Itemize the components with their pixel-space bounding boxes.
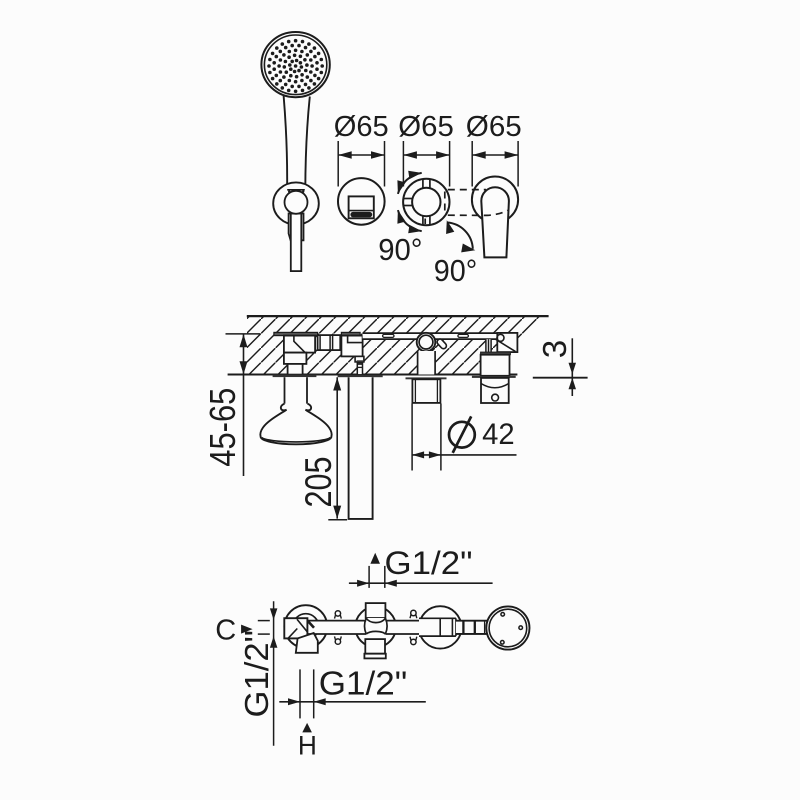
top G1/2 pointer arrow: [370, 553, 380, 564]
dimension line Ø65 #3: [471, 141, 473, 187]
pipe slot left: [383, 334, 394, 337]
dimension 45-65 extension line: [226, 333, 261, 335]
C extension ticks: [258, 621, 270, 635]
plan hose pipe ticks: [463, 621, 485, 634]
Ø42 diameter symbol: [449, 416, 475, 453]
mounting ear A bottom: [335, 639, 340, 644]
hose nipple cap: [357, 360, 364, 363]
dimension line Ø65 #1: [337, 141, 339, 187]
bell spout: [260, 404, 331, 445]
plan ball joint: [365, 618, 388, 634]
mounting ear B bottom: [411, 639, 416, 644]
plan middle bottom collar: [364, 654, 385, 659]
hose fitting interior: [348, 336, 363, 343]
right body arc: [481, 384, 509, 388]
bottom G1/2 dimension line: [279, 701, 426, 703]
hidden edge dashes upper: [448, 189, 486, 191]
hand shower head inner rim: [264, 35, 326, 95]
ring tab top: [423, 179, 430, 188]
plan right-middle rosette: [419, 606, 461, 648]
top G1/2 extension lines: [369, 566, 385, 588]
spout divider line: [349, 210, 374, 212]
right body hole: [492, 394, 499, 401]
hidden edge dashes lower: [448, 210, 508, 215]
svg-text:90°: 90°: [378, 232, 422, 267]
pipe slot right: [458, 334, 469, 337]
elbow flange: [273, 375, 317, 378]
elbow interior lines: [294, 336, 305, 353]
elbow body: [284, 336, 315, 353]
right body below wall: [481, 378, 509, 403]
valve in-wall body: [418, 351, 436, 375]
wall top line: [247, 315, 549, 317]
finished wall line: [533, 377, 588, 379]
right elbow screw: [497, 334, 504, 341]
svg-text:G1/2": G1/2": [385, 545, 473, 581]
horizontal supply pipe: [363, 333, 498, 339]
dimension Ø42 extension lines: [412, 404, 441, 471]
rotation arc lower: [398, 210, 422, 231]
shower handle: [284, 96, 310, 191]
plan hand shower holder outer: [486, 606, 529, 649]
lever rotation arc: [447, 223, 473, 249]
wall face line: [228, 374, 518, 376]
dimension 3 line: [571, 338, 573, 396]
hose fitting neck: [355, 356, 364, 362]
lever handle: [481, 187, 509, 257]
svg-text:H: H: [298, 730, 317, 760]
svg-text:3: 3: [536, 340, 573, 359]
right flange: [472, 376, 516, 378]
plan elbow down port: [296, 633, 318, 653]
spout aerator slot: [350, 212, 372, 217]
elbow top plate: [274, 332, 318, 335]
dimension 205 extension: [328, 519, 347, 521]
angled stub: [440, 342, 444, 346]
svg-text:C: C: [215, 615, 236, 647]
plan left boss: [293, 614, 319, 640]
dimension line Ø65 #2: [402, 141, 404, 187]
plan hose pipe: [456, 621, 487, 634]
svg-text:205: 205: [298, 457, 339, 508]
valve circle inner: [419, 335, 433, 349]
svg-text:90°: 90°: [434, 253, 478, 288]
mounting ear A top: [335, 611, 340, 616]
shower outlet flange: [338, 375, 383, 377]
svg-text:Ø65: Ø65: [466, 111, 522, 143]
top G1/2 dimension line: [349, 582, 493, 584]
ring tab left: [404, 199, 413, 206]
ring tab bottom: [423, 216, 430, 225]
hose connector collar: [289, 214, 304, 241]
right diagonal line: [496, 339, 516, 351]
bottom G1/2 extension lines: [300, 669, 314, 718]
H pointer arrow: [302, 723, 312, 733]
plan sleeve joints: [440, 618, 456, 636]
svg-text:Ø65: Ø65: [334, 111, 389, 143]
plan pipe shadow edge: [308, 621, 314, 628]
valve flange: [406, 377, 447, 379]
spray nozzle dots: [267, 39, 324, 93]
right neck lines: [486, 339, 491, 352]
svg-text:G1/2": G1/2": [319, 665, 408, 702]
bracket clamp line: [287, 189, 305, 191]
spout outlet box: [349, 196, 374, 218]
hose nipple: [357, 363, 362, 375]
bracket inner circle: [285, 191, 308, 214]
plan middle rosette: [355, 607, 396, 648]
hose fitting body: [341, 336, 362, 357]
dimension 45-65 line: [243, 334, 245, 476]
hose end piece: [291, 214, 302, 272]
ring outer circle: [403, 179, 449, 225]
wall bracket outer ring: [273, 182, 319, 224]
coupling rings: [320, 335, 340, 350]
drop tube 205: [349, 377, 373, 519]
elbow lower body: [284, 353, 307, 364]
plan elbow block: [284, 618, 307, 638]
right elbow block: [497, 333, 517, 352]
svg-text:42: 42: [482, 418, 514, 451]
plan hand shower holder inner: [489, 609, 527, 647]
dimension 205 line: [336, 377, 338, 518]
svg-text:G1/2": G1/2": [238, 630, 275, 718]
svg-text:45-65: 45-65: [202, 388, 243, 467]
plan sleeve: [419, 618, 456, 636]
lever rosette circle: [472, 177, 518, 223]
hose fitting top plate: [341, 332, 360, 335]
plan main pipe: [307, 621, 497, 634]
mounting ear B top: [411, 610, 416, 615]
valve body below wall: [412, 379, 440, 403]
plan middle bottom port: [365, 639, 385, 654]
dimension Ø42 line: [412, 454, 517, 456]
spout face circle: [338, 178, 385, 225]
plan left rosette: [284, 605, 327, 648]
hidden edge dash vertical: [444, 192, 446, 215]
left dimension line: [273, 601, 275, 745]
coupling nipple: [318, 335, 342, 350]
rotation arc upper: [398, 173, 422, 194]
ring inner circle: [412, 188, 440, 216]
C pointer arrow: [241, 625, 253, 634]
right body in wall: [481, 355, 510, 376]
hand shower head outer rim: [261, 32, 329, 97]
valve body inner lines: [415, 379, 437, 403]
bell rim inner arc: [262, 438, 331, 442]
bell neck: [285, 377, 308, 404]
right collar: [481, 352, 511, 355]
valve circle outer: [417, 333, 436, 352]
plan middle top port: [366, 603, 386, 618]
plan elbow block diagonals: [288, 619, 307, 638]
holder screw holes: [501, 613, 523, 645]
elbow neck: [288, 364, 303, 375]
hose nipple rings: [357, 364, 362, 367]
clamp screws: [288, 190, 304, 192]
svg-text:Ø65: Ø65: [398, 111, 454, 143]
